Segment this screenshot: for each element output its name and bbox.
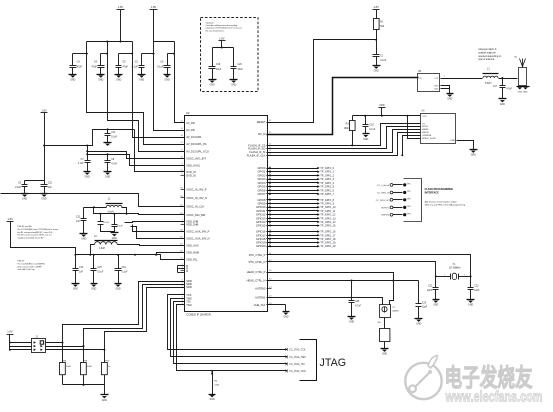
- wire vertical v5 to AV_DD1: [175, 42, 185, 123]
- wire rail to VDD_PLL: [135, 255, 185, 260]
- svg-text:1.8V: 1.8V: [219, 36, 225, 40]
- resistor R11: [384, 318, 386, 329]
- svg-text:TP_GPIO_6: TP_GPIO_6: [320, 188, 334, 192]
- svg-text:2: 2: [464, 274, 465, 276]
- wire TP_GPIO_8: [267, 199, 318, 201]
- svg-text:4.7uF: 4.7uF: [355, 305, 361, 307]
- svg-text:AV_DD: AV_DD: [186, 128, 195, 132]
- svg-text:www.elecfans.com: www.elecfans.com: [445, 390, 543, 406]
- svg-text:GND: GND: [500, 104, 505, 106]
- svg-text:CC_JTAG_TMS: CC_JTAG_TMS: [289, 356, 306, 359]
- wire stub: [119, 53, 133, 55]
- wire TP_GPIO_12: [267, 214, 318, 216]
- supply 1.8V top-left B: [150, 9, 158, 11]
- svg-text:DVD_IO: DVD_IO: [186, 173, 196, 177]
- wire TP_GPIO_18: [267, 238, 318, 240]
- svg-text:C20: C20: [422, 302, 427, 304]
- svg-text:de-b connect with a VREF: de-b connect with a VREF: [18, 265, 43, 268]
- capacitor C11: [107, 130, 109, 134]
- wire TP_GPIO_20: [267, 246, 318, 248]
- svg-text:GPIO15: GPIO15: [256, 224, 266, 228]
- svg-text:12pF: 12pF: [422, 307, 428, 309]
- capacitor C9: [24, 181, 26, 185]
- svg-text:GND: GND: [382, 354, 387, 356]
- svg-text:P04 B1 and B5:: P04 B1 and B5:: [18, 226, 33, 228]
- wire U4 gnd: [457, 141, 474, 150]
- svg-text:0.1uF: 0.1uF: [369, 129, 375, 131]
- balun B1 box: [418, 74, 440, 92]
- svg-text:GND: GND: [102, 400, 107, 402]
- svg-text:1.8V: 1.8V: [151, 5, 157, 9]
- svg-text:XOSC_DIG_BW: XOSC_DIG_BW: [186, 213, 206, 217]
- wire: [221, 41, 223, 48]
- svg-text:RF_M: RF_M: [258, 132, 265, 136]
- wire HEAD_CTRL_N: [267, 280, 419, 282]
- capacitor C14 1uF: [75, 255, 77, 269]
- svg-text:FLASH_IF_CLK: FLASH_IF_CLK: [247, 153, 266, 157]
- svg-text:GND: GND: [283, 317, 288, 319]
- svg-text:GND: GND: [471, 155, 476, 157]
- svg-text:TP_GPIO_12: TP_GPIO_12: [320, 213, 336, 217]
- wire TP_GPIO_16: [267, 231, 318, 233]
- svg-text:GPIO3: GPIO3: [257, 177, 265, 181]
- svg-text:U2: U2: [186, 111, 190, 115]
- svg-text:C19: C19: [216, 64, 221, 66]
- svg-text:GND: GND: [349, 322, 354, 324]
- capacitor C18: [365, 116, 367, 125]
- svg-text:47pF: 47pF: [77, 66, 83, 69]
- ground near IC bottom: [283, 311, 290, 313]
- wire HEAD_CTRL_P staircase: [267, 273, 394, 281]
- wire rail from supply: [11, 222, 135, 255]
- watermark logo: [405, 363, 441, 399]
- svg-text:GND: GND: [85, 177, 90, 179]
- svg-text:TP_GPIO_19: TP_GPIO_19: [320, 241, 336, 245]
- svg-text:1M: 1M: [377, 322, 380, 324]
- svg-text:TP_GPIO_10: TP_GPIO_10: [320, 205, 336, 209]
- wire X1 right lead: [390, 281, 394, 305]
- supply VDD: [379, 107, 386, 109]
- wire: [384, 342, 386, 349]
- svg-text:XOSC_AVG_INT: XOSC_AVG_INT: [186, 156, 206, 160]
- wire CC_JTAG_TDO: [177, 305, 287, 371]
- supply 1.8V top-left A: [117, 9, 125, 11]
- svg-text:DVD_IO: DVD_IO: [186, 170, 196, 174]
- wire J1 left pins: [10, 342, 32, 344]
- wire rail213: [94, 208, 136, 214]
- svg-text:GPIO18: GPIO18: [256, 237, 266, 241]
- svg-text:TP_GPIO_5: TP_GPIO_5: [320, 185, 334, 189]
- svg-text:XOSC_IN_CLK: XOSC_IN_CLK: [186, 205, 204, 209]
- svg-text:C18: C18: [369, 125, 374, 127]
- svg-text:C10: C10: [48, 182, 53, 184]
- svg-text:1: 1: [444, 274, 445, 276]
- capacitor C22: [470, 277, 472, 288]
- ground X1: [381, 348, 389, 350]
- svg-text:JTAG: JTAG: [320, 357, 347, 369]
- svg-text:GPIO12: GPIO12: [256, 213, 266, 217]
- svg-text:RESET: RESET: [257, 120, 266, 124]
- svg-text:SPI0_C1 and SPI0_C2 for NA pro: SPI0_C1 and SPI0_C2 for NA programming: [425, 203, 466, 206]
- svg-text:Add resistor on the board to i: Add resistor on the board to isolate: [425, 201, 458, 204]
- wire stair VDD_D4B: [125, 222, 185, 223]
- svg-text:GND: GND: [73, 289, 78, 291]
- svg-text:CC_JTAG_TDO: CC_JTAG_TDO: [289, 370, 306, 373]
- capacitor C3 47pF: [72, 54, 74, 66]
- svg-text:TP_GPIO_2: TP_GPIO_2: [320, 173, 334, 177]
- svg-text:47pF: 47pF: [92, 66, 98, 69]
- svg-text:12pF: 12pF: [474, 290, 480, 292]
- svg-text:TP_GPIO_1: TP_GPIO_1: [320, 170, 334, 174]
- supply 1.8V left mid: [41, 112, 48, 114]
- svg-text:GPIO8: GPIO8: [257, 198, 265, 202]
- wire L3 left to rail: [91, 245, 95, 255]
- resistor R8 100k: [62, 343, 64, 363]
- capacitor C15 0.1uF: [93, 254, 95, 256]
- svg-text:GPIO0: GPIO0: [257, 166, 265, 170]
- svg-text:8GPIO2: 8GPIO2: [381, 215, 390, 217]
- svg-text:TP_GPIO_13: TP_GPIO_13: [320, 216, 336, 220]
- svg-text:CC8520 IF QN/RGR: CC8520 IF QN/RGR: [186, 312, 211, 316]
- svg-text:5.6nH: 5.6nH: [485, 82, 492, 85]
- svg-text:GND: GND: [231, 85, 236, 87]
- svg-text:INTERFACE: INTERFACE: [425, 191, 440, 194]
- wire stub: [168, 53, 175, 55]
- ground R4: [209, 394, 216, 396]
- wire FLASH_IF line 4: [267, 133, 421, 156]
- svg-text:C12: C12: [76, 217, 81, 219]
- svg-text:TCK: TCK: [186, 293, 191, 297]
- wire stub: [101, 53, 108, 55]
- svg-text:Antenna match. A: Antenna match. A: [478, 48, 497, 51]
- svg-text:GND: GND: [374, 71, 379, 73]
- svg-text:1.8V: 1.8V: [374, 5, 380, 9]
- svg-text:4.7uF: 4.7uF: [111, 163, 117, 165]
- svg-text:AUTEN2: AUTEN2: [255, 287, 266, 291]
- svg-text:100k: 100k: [344, 128, 350, 130]
- supply 1.8V far left: [7, 221, 14, 223]
- svg-text:P06 d7:: P06 d7:: [18, 261, 26, 263]
- svg-text:GND: GND: [433, 305, 438, 307]
- crystal X1 box: [380, 305, 391, 318]
- svg-text:pin B1 unconnected(B1 NC / als: pin B1 unconnected(B1 NC / also P4).: [18, 231, 54, 234]
- svg-text:TP_GPIO_11: TP_GPIO_11: [320, 209, 336, 213]
- wire FLASH_IF line 2: [267, 127, 421, 149]
- svg-text:GND: GND: [70, 80, 75, 82]
- svg-text:GND: GND: [139, 80, 144, 82]
- capacitor C7: [87, 146, 89, 161]
- wire net2b mid: [88, 155, 185, 166]
- capacitor C1: [376, 40, 378, 55]
- wire SDR2 staircase: [84, 285, 185, 347]
- svg-text:GPIO1: GPIO1: [257, 170, 265, 174]
- wire stair XOSC_AUX_INV_N: [131, 227, 185, 239]
- wire TP_GPIO_13: [267, 218, 318, 220]
- svg-text:GPIO7: GPIO7: [257, 192, 265, 196]
- wire CC_JTAG_TMS: [171, 299, 287, 357]
- svg-text:C14: C14: [79, 267, 84, 269]
- capacitor C19b: [351, 281, 353, 301]
- capacitor C20 10uF: [233, 48, 235, 67]
- svg-text:VCC: VCC: [422, 116, 427, 118]
- svg-text:GND: GND: [434, 86, 439, 88]
- wire CHE_TLK to gnd: [267, 304, 286, 306]
- supply 1.8V J1: [7, 334, 14, 336]
- antenna symbol: [520, 59, 526, 67]
- svg-text:1.8V: 1.8V: [41, 108, 47, 112]
- svg-text:the circuit elements.: the circuit elements.: [206, 29, 225, 32]
- capacitor C14: [114, 214, 116, 225]
- svg-text:TD: TD: [422, 123, 425, 125]
- svg-text:CC_SPI0_SI: CC_SPI0_SI: [377, 193, 390, 195]
- wire OUT to L1: [441, 78, 483, 80]
- svg-text:1.8V: 1.8V: [118, 5, 124, 9]
- svg-text:32.768kHz: 32.768kHz: [449, 267, 461, 270]
- resistor R10 1k: [104, 350, 106, 363]
- svg-text:VDD_D4B: VDD_D4B: [186, 222, 198, 226]
- wire L3 right to VDD_AUX: [118, 245, 185, 246]
- svg-text:1.8V: 1.8V: [8, 217, 14, 221]
- svg-text:XOSC_AUX_INV_P: XOSC_AUX_INV_P: [186, 229, 209, 233]
- test point bracket: [404, 179, 422, 222]
- wire: [120, 10, 122, 42]
- svg-text:SDR: SDR: [186, 285, 192, 289]
- svg-text:GPIO11: GPIO11: [256, 209, 266, 213]
- capacitor C20b: [418, 281, 420, 304]
- svg-text:GND: GND: [42, 199, 47, 201]
- svg-text:TP_GPIO_16: TP_GPIO_16: [320, 230, 336, 234]
- svg-text:XOSC_IN_INV_N: XOSC_IN_INV_N: [186, 196, 207, 200]
- IC U2 CC8520 body: [185, 116, 268, 312]
- svg-text:4.7uF: 4.7uF: [78, 163, 84, 165]
- svg-text:CC_JTAG_TDI: CC_JTAG_TDI: [289, 363, 305, 366]
- svg-text:VDD_PLL: VDD_PLL: [186, 258, 198, 262]
- svg-text:Pin B1 can be used as GPIO_3.1: Pin B1 can be used as GPIO_3.1 if a: [18, 235, 53, 237]
- svg-text:GND: GND: [91, 289, 96, 291]
- svg-text:1uF: 1uF: [79, 271, 84, 273]
- resistor R3 pullup: [352, 116, 354, 121]
- svg-text:4.7pF: 4.7pF: [506, 88, 512, 90]
- svg-text:capacitors if the balls(nc) ar: capacitors if the balls(nc) are not acce…: [206, 27, 243, 30]
- svg-text:GPIO17: GPIO17: [256, 233, 266, 237]
- wire FLASH_IF line 3: [267, 130, 421, 153]
- svg-text:GND: GND: [105, 177, 110, 179]
- svg-text:For CC2520(B0) and CC2520M par: For CC2520(B0) and CC2520M parts, leave: [18, 228, 59, 231]
- svg-text:C25: C25: [355, 301, 360, 303]
- wire RTC_CTRL_N to crystal: [267, 262, 436, 277]
- svg-text:RTC_CTRL_N: RTC_CTRL_N: [249, 260, 266, 264]
- svg-text:CC_SPI0_SO: CC_SPI0_SO: [376, 200, 390, 202]
- svg-text:TP_GPIO_9: TP_GPIO_9: [320, 201, 334, 205]
- svg-text:For CC2530F64, CC2530F96: For CC2530F64, CC2530F96: [18, 262, 46, 265]
- antenna A1 connector box: [519, 68, 527, 86]
- svg-text:1uF: 1uF: [76, 221, 81, 223]
- svg-text:1uF: 1uF: [48, 187, 53, 189]
- svg-text:10uF: 10uF: [238, 69, 244, 71]
- wire gnd rail J1: [63, 384, 105, 386]
- svg-text:GPIO5: GPIO5: [257, 185, 265, 189]
- wire CC_JTAG_TDI: [174, 302, 287, 364]
- svg-text:ASDIO: ASDIO: [422, 131, 429, 134]
- crystal Y1: [436, 276, 451, 278]
- wire reset net to RESET pin: [267, 40, 377, 123]
- wire TP_GPIO_0: [267, 168, 318, 170]
- balun gnd pins: [441, 86, 450, 89]
- inductor L2: [106, 205, 122, 207]
- svg-text:GPIO14: GPIO14: [256, 220, 266, 224]
- wire vertical v2 to AV_DCOUPL_VCO: [108, 42, 185, 152]
- svg-text:ATEST_ROM: ATEST_ROM: [422, 137, 435, 140]
- wire FLASH_IF line 1: [267, 124, 421, 146]
- svg-text:TP_GPIO_7: TP_GPIO_7: [320, 192, 334, 196]
- capacitor C2 0.1uF: [141, 54, 143, 66]
- svg-text:type of antenna.: type of antenna.: [478, 58, 495, 61]
- wire: [213, 47, 234, 49]
- svg-text:TP_GPIO_18: TP_GPIO_18: [320, 237, 336, 241]
- svg-text:ASMD: ASMD: [422, 128, 429, 131]
- wire TP_GPIO_3: [267, 179, 318, 181]
- svg-text:GND: GND: [81, 239, 86, 241]
- connector U4 flash programming: [421, 114, 456, 144]
- capacitor C12: [83, 208, 85, 219]
- wire: [499, 78, 518, 80]
- wire net2a mid: [88, 152, 185, 159]
- svg-text:and add 0.1uF cap: and add 0.1uF cap: [18, 269, 36, 271]
- wire TP_GPIO_15: [267, 225, 318, 227]
- svg-text:8GPIO1: 8GPIO1: [381, 207, 390, 209]
- wire net1 mid: [45, 130, 135, 146]
- svg-text:SPRESB: SPRESB: [422, 135, 431, 137]
- svg-text:GND: GND: [22, 199, 27, 201]
- svg-text:TP_GPIO_20: TP_GPIO_20: [320, 244, 336, 248]
- svg-text:Consider adding extra de-coupl: Consider adding extra de-coupling: [206, 24, 238, 27]
- svg-text:GND: GND: [450, 140, 455, 142]
- svg-text:GPIO19: GPIO19: [256, 241, 266, 245]
- wire TP_GPIO_6: [267, 190, 318, 192]
- wire CC_JTAG_TCK: [168, 295, 287, 350]
- wire TP_GPIO_5: [267, 186, 318, 188]
- wire SDR1 staircase: [63, 282, 185, 343]
- svg-text:CC_n_Reset: CC_n_Reset: [377, 184, 390, 187]
- svg-text:C16: C16: [122, 267, 127, 269]
- wire TP_GPIO_19: [267, 242, 318, 244]
- svg-text:1.8V: 1.8V: [7, 330, 13, 334]
- svg-text:0.1uF: 0.1uF: [122, 271, 128, 273]
- svg-text:RTC_CTRL_P: RTC_CTRL_P: [249, 253, 266, 257]
- svg-text:XOSC_AUX_INV_N: XOSC_AUX_INV_N: [186, 236, 209, 240]
- wire vertical v3 to AV_DCOUPL: [133, 42, 185, 138]
- svg-text:GND: GND: [116, 80, 121, 82]
- svg-text:GND GND: GND GND: [518, 91, 528, 93]
- svg-text:CC_JTAG_TCK: CC_JTAG_TCK: [289, 348, 306, 351]
- svg-text:AUTEN1: AUTEN1: [255, 295, 266, 299]
- wire to C9: [25, 180, 45, 182]
- svg-text:ATCK: ATCK: [422, 125, 428, 128]
- svg-text:GPIO2: GPIO2: [257, 173, 265, 177]
- ground J1 resistors: [101, 394, 109, 396]
- svg-text:4.7uF: 4.7uF: [103, 222, 109, 224]
- capacitor C4 47pF: [100, 54, 102, 66]
- svg-text:GND: GND: [468, 305, 473, 307]
- svg-text:GND: GND: [416, 324, 421, 326]
- ground balun: [447, 93, 454, 95]
- capacitor C19 10uF: [212, 48, 214, 67]
- wire L2 net: [84, 207, 107, 209]
- ground antenna: [519, 86, 521, 87]
- svg-text:GPIO20: GPIO20: [256, 244, 266, 248]
- capacitor C16 0.1uF: [117, 254, 119, 256]
- svg-text:0.1uF: 0.1uF: [117, 225, 123, 227]
- svg-text:2.2uF: 2.2uF: [15, 187, 21, 189]
- wire SDR3 staircase: [105, 288, 185, 350]
- wire U4 pin5: [403, 136, 421, 156]
- U2 right pin names: [267, 122, 272, 124]
- wire TP_GPIO_17: [267, 235, 318, 237]
- wire VCC tie to pin6: [408, 116, 421, 139]
- wire TP_GPIO_2: [267, 175, 318, 177]
- wire long net y193: [1, 194, 185, 207]
- wire TP_GPIO_11: [267, 210, 318, 212]
- svg-text:47pF: 47pF: [123, 66, 129, 69]
- U2 left pin names and numbers: [181, 122, 185, 124]
- svg-text:GPIO10: GPIO10: [256, 205, 266, 209]
- svg-text:0.1uF: 0.1uF: [111, 136, 117, 138]
- optional extra decoupling dashed box: [201, 18, 259, 92]
- svg-text:CHE_TLK: CHE_TLK: [254, 303, 266, 307]
- svg-text:C21: C21: [428, 286, 433, 288]
- capacitor C8: [107, 155, 109, 161]
- svg-text:AV_DCOUPL: AV_DCOUPL: [186, 135, 202, 139]
- svg-text:22pF: 22pF: [427, 290, 433, 292]
- wire TP_GPIO_1: [267, 171, 318, 173]
- svg-text:network might be: network might be: [478, 51, 496, 54]
- svg-text:0.1uF: 0.1uF: [380, 60, 386, 62]
- inductor L1: [483, 76, 498, 78]
- svg-text:GND: GND: [210, 399, 215, 401]
- wire vertical v1 to AV_DCOUPL_PA: [87, 42, 185, 145]
- svg-text:R: R: [186, 269, 188, 273]
- svg-text:0.1uF: 0.1uF: [97, 271, 103, 273]
- wire TP_GPIO_10: [267, 207, 318, 209]
- supply 1.8V in dashed box: [219, 40, 226, 42]
- supply 1.8V reset: [373, 9, 380, 11]
- svg-text:GND: GND: [115, 289, 120, 291]
- svg-text:AV_DCOUPL_VCO: AV_DCOUPL_VCO: [186, 149, 209, 153]
- svg-text:AV_DD: AV_DD: [186, 121, 195, 125]
- svg-text:TP_GPIO_0: TP_GPIO_0: [320, 166, 334, 170]
- wire TP_GPIO_4: [267, 182, 318, 184]
- wire vertical v4 to AV_DD2: [154, 42, 185, 131]
- wire VCC rail: [353, 115, 421, 117]
- svg-text:C15: C15: [97, 267, 102, 269]
- svg-text:GND: GND: [165, 80, 170, 82]
- wire RTC_CTRL_P to crystal: [267, 255, 471, 277]
- capacitor C13: [100, 214, 102, 222]
- capacitor C17 antenna: [502, 79, 504, 86]
- R pin stubs: [178, 265, 185, 267]
- inductor L3: [95, 242, 118, 245]
- wire: [153, 10, 155, 42]
- svg-text:TP_GPIO_4: TP_GPIO_4: [320, 181, 334, 185]
- wire stub: [73, 53, 87, 55]
- capacitor C5 47pF: [118, 54, 120, 66]
- resistor R4 pulldown: [211, 370, 213, 372]
- wire riser C11 net to DVD pin: [135, 130, 185, 172]
- svg-text:VDD_AUX: VDD_AUX: [186, 243, 199, 247]
- wire L2 to rail: [122, 208, 127, 214]
- svg-text:GPIO4: GPIO4: [257, 181, 265, 185]
- resistor R1: [376, 10, 378, 19]
